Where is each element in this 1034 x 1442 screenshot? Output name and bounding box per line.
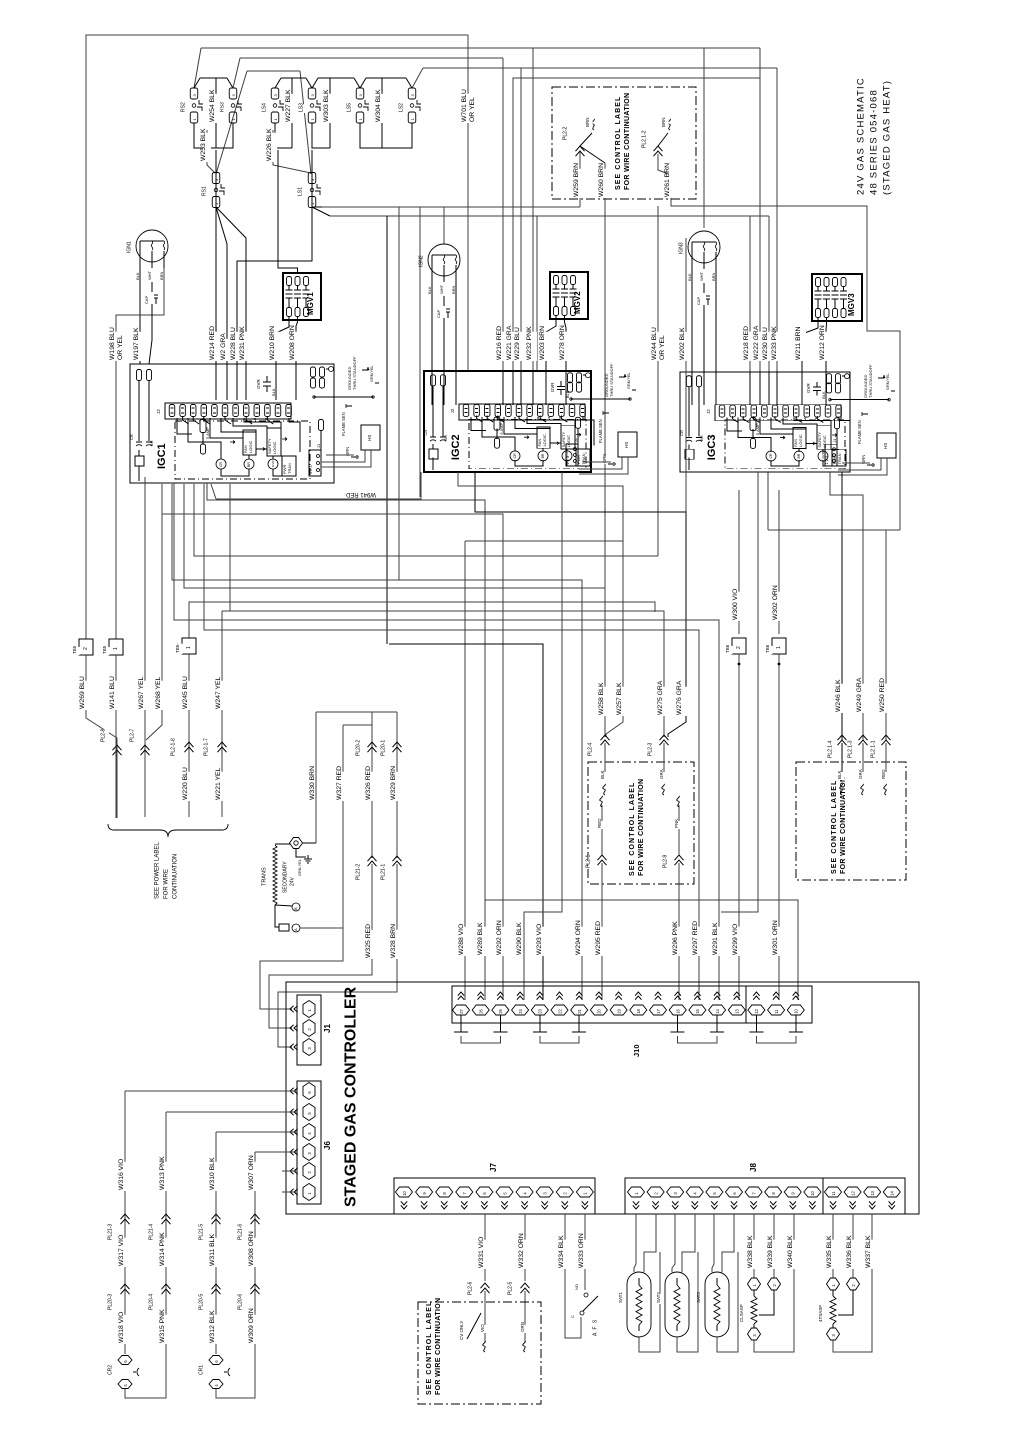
connector PL20-5	[201, 1294, 207, 1311]
connector PL2.1-2	[644, 130, 650, 149]
label W332 ORN	[521, 1240, 529, 1269]
svg-text:W292 ORN: W292 ORN	[496, 920, 503, 955]
connector PL2-1-7	[206, 738, 212, 757]
wire IGN2 feed	[443, 207, 445, 244]
svg-text:ORN: ORN	[520, 1322, 525, 1332]
wire into IGC3 J2	[691, 372, 693, 405]
svg-text:BLK: BLK	[837, 770, 842, 779]
connector PL2-8	[103, 729, 109, 743]
svg-text:GVR: GVR	[256, 378, 261, 389]
wire CR2 pin4 loop	[125, 1389, 166, 1398]
wire into IGC1 J2	[226, 364, 228, 400]
label W210 BRN	[272, 332, 280, 361]
svg-text:23: 23	[538, 1008, 543, 1013]
label W245 BLU	[185, 681, 193, 710]
wire bus to PL2-4 / W258 BLK	[184, 484, 605, 588]
svg-text:W197 BLK: W197 BLK	[133, 327, 140, 360]
terminal TB6 2	[732, 638, 746, 654]
svg-text:24V: 24V	[290, 876, 296, 886]
wire W216 RED feed (rail58 drop)	[502, 58, 504, 371]
connector PL21-4	[151, 1224, 157, 1241]
dashed box SEE CONTROL LABEL top-right	[552, 87, 696, 199]
switch RS3	[229, 88, 237, 99]
svg-text:CAP: CAP	[144, 295, 149, 304]
label W318 VIO	[121, 1315, 129, 1344]
svg-text:W290 BLK: W290 BLK	[516, 922, 523, 955]
svg-text:W258 BLK: W258 BLK	[598, 682, 605, 715]
wire J6 pin4 to W310 chain	[216, 1131, 297, 1133]
svg-text:J8: J8	[749, 1163, 758, 1172]
wire W330 BRN	[315, 712, 317, 838]
ignition control IGC2	[424, 371, 591, 472]
wire bus to W275 GRA	[229, 484, 231, 611]
svg-text:W335 BLK: W335 BLK	[826, 1235, 833, 1268]
svg-text:W232 PNK: W232 PNK	[526, 326, 533, 360]
svg-text:OR YEL: OR YEL	[659, 335, 666, 360]
wire into IGC3 J2	[801, 372, 803, 405]
wire W301 ORN	[778, 654, 780, 1000]
wire IGN1 BLK down (W197)	[139, 268, 141, 364]
svg-text:RED: RED	[881, 769, 886, 779]
svg-text:14: 14	[715, 1008, 720, 1013]
IGC2 grn/yel arrow	[619, 374, 625, 377]
label W333 ORN	[581, 1240, 589, 1269]
svg-text:15: 15	[695, 1008, 700, 1013]
svg-text:TRANS: TRANS	[262, 867, 268, 886]
label W227 BLK	[288, 94, 296, 123]
svg-text:W288 VIO: W288 VIO	[458, 924, 465, 955]
svg-text:W229 BLU: W229 BLU	[514, 327, 521, 360]
connector PL2-5	[510, 1282, 516, 1296]
svg-text:W308 ORN: W308 ORN	[248, 1231, 255, 1266]
wire into IGC1 J2	[275, 364, 277, 400]
svg-text:W2 GRA: W2 GRA	[220, 333, 227, 360]
svg-text:PL2-3: PL2-3	[648, 742, 654, 756]
svg-text:W276 GRA: W276 GRA	[676, 680, 683, 715]
svg-text:BLK: BLK	[427, 286, 432, 294]
wire W232 feed from rail48	[532, 48, 534, 371]
svg-text:(STAGED GAS HEAT): (STAGED GAS HEAT)	[881, 80, 892, 195]
svg-text:PL2.1-1: PL2.1-1	[871, 740, 877, 758]
svg-text:PL2-6: PL2-6	[468, 1281, 474, 1295]
wire IGC1 CR down	[138, 466, 140, 481]
label W337 BLK	[868, 1240, 876, 1269]
label W222 GRA	[756, 332, 764, 361]
svg-text:1 2 3: 1 2 3	[309, 466, 313, 474]
J10 termination bars	[460, 1015, 462, 1032]
label W233 PNK	[774, 332, 782, 361]
svg-text:MGV3: MGV3	[847, 293, 856, 316]
svg-text:CR1: CR1	[199, 1365, 205, 1375]
svg-text:W316 VIO: W316 VIO	[118, 1159, 125, 1190]
IGC1 connector J1	[309, 450, 321, 476]
svg-text:LOGIC: LOGIC	[798, 434, 803, 447]
wire J6 pin6 to W316 chain	[125, 1090, 297, 1092]
connector PL20-1	[383, 740, 389, 757]
svg-text:W218 RED: W218 RED	[743, 326, 750, 360]
wire W327 RED	[342, 725, 344, 928]
svg-text:16: 16	[676, 1008, 681, 1013]
IGC1 HS wires	[322, 450, 365, 462]
svg-text:W331 VIO: W331 VIO	[478, 1237, 485, 1268]
svg-text:W202 BLK: W202 BLK	[679, 327, 686, 360]
IGC1 grn/yel arrow	[362, 367, 368, 370]
svg-text:SEE CONTROL LABEL: SEE CONTROL LABEL	[831, 780, 838, 874]
IGC3 FAN LOGIC box	[793, 427, 806, 448]
svg-text:W294 ORN: W294 ORN	[575, 920, 582, 955]
svg-text:GRN-YEL: GRN-YEL	[298, 859, 302, 876]
wire PL2-2 diagonal to coil	[580, 133, 592, 146]
switch LS2	[408, 88, 416, 99]
wire W226 feed to LS1	[273, 130, 311, 173]
label W309 ORN	[251, 1315, 259, 1344]
svg-text:IGC1: IGC1	[156, 443, 168, 469]
terminal TB5 2	[79, 639, 93, 655]
svg-text:PL21-1: PL21-1	[381, 864, 387, 880]
svg-text:CONTINUATION: CONTINUATION	[172, 854, 178, 899]
wire bus to W249 GRA	[830, 472, 863, 740]
capacitor CAP of IGN2	[443, 296, 445, 306]
label W202 BLK	[682, 332, 690, 361]
svg-text:PL2-9: PL2-9	[663, 854, 669, 868]
label W268 YEL	[158, 681, 166, 710]
svg-text:2: 2	[83, 647, 89, 650]
svg-text:CAP: CAP	[436, 309, 441, 318]
svg-text:BRN: BRN	[661, 117, 666, 127]
svg-text:CR: CR	[129, 434, 134, 440]
wire U-loop LS4	[275, 123, 292, 148]
svg-text:FOR WIRE CONTINUATION: FOR WIRE CONTINUATION	[840, 777, 847, 874]
svg-text:PL20-6: PL20-6	[238, 1294, 244, 1310]
relay contact CR2	[110, 1367, 116, 1376]
wire GRA stub in right box	[862, 743, 864, 780]
svg-text:GRA: GRA	[858, 769, 863, 779]
svg-text:W245 BLU: W245 BLU	[182, 676, 189, 709]
svg-text:BLK: BLK	[600, 770, 605, 779]
switch AFS	[584, 1293, 588, 1297]
label W296 PNK	[675, 927, 683, 956]
svg-text:IGN2: IGN2	[419, 255, 425, 267]
wire J7 pin2 W334 BLK	[565, 1214, 581, 1338]
wire into IGC3 J2	[749, 372, 751, 405]
relay contact CR1	[201, 1367, 207, 1376]
IGC2 GRN wire stub	[605, 456, 610, 464]
wire SAT3 left lead	[712, 1214, 714, 1272]
svg-text:LS5: LS5	[347, 103, 353, 112]
IGC2 PWR TRAN box	[576, 449, 590, 466]
svg-text:TB5: TB5	[102, 645, 107, 654]
svg-text:THRU STANDOFF: THRU STANDOFF	[352, 356, 357, 390]
svg-text:BR: BR	[541, 453, 545, 458]
label W276 GRA	[679, 687, 687, 716]
svg-text:W313 PNK: W313 PNK	[159, 1156, 166, 1190]
label W211 BRN	[798, 332, 806, 361]
svg-text:SAT1: SAT1	[618, 1292, 623, 1303]
label J1	[327, 1025, 336, 1034]
svg-text:TRAN: TRAN	[581, 453, 586, 464]
wire J6 pin3 to W307 chain	[255, 1151, 297, 1153]
label W261 BRN	[667, 169, 675, 198]
CLSASP pin2 bend	[759, 1290, 774, 1315]
wire right side h530	[768, 529, 900, 531]
transformer secondary coil	[273, 845, 277, 905]
wire bus to W289 BLK	[207, 483, 485, 1000]
wire LS1 diagonal to h216	[312, 207, 330, 216]
label W325 RED	[368, 930, 376, 959]
wire drop 537	[536, 216, 538, 371]
temperature sensor SAT2	[665, 1272, 689, 1337]
svg-text:GVR: GVR	[806, 383, 811, 394]
label W289 BLK	[480, 927, 488, 956]
svg-text:RED: RED	[597, 818, 602, 828]
wire IGN1 BRN to W198	[116, 268, 164, 639]
wire into IGC2 J2	[502, 371, 504, 405]
label W212 ORN	[822, 332, 830, 361]
svg-text:PL20-2: PL20-2	[356, 740, 362, 756]
wire into IGC1 J2	[245, 364, 247, 400]
svg-text:PL2-1: PL2-1	[586, 854, 592, 868]
svg-text:W299 VIO: W299 VIO	[732, 924, 739, 955]
connector PL2-2	[565, 127, 571, 141]
svg-text:J7: J7	[489, 1163, 498, 1172]
rail y58	[240, 57, 503, 59]
label W329 BRN	[393, 772, 401, 801]
switch LS3	[308, 88, 316, 99]
svg-text:W244 BLU: W244 BLU	[651, 327, 658, 360]
svg-text:BLK: BLK	[135, 272, 140, 280]
wire W230 feed	[768, 216, 770, 372]
svg-text:RS2: RS2	[181, 102, 187, 112]
IGC2 BR contact	[446, 436, 451, 441]
svg-text:W310 BLK: W310 BLK	[209, 1157, 216, 1190]
label W307 ORN	[251, 1162, 259, 1191]
label W331 VIO	[481, 1240, 489, 1269]
IGC3 thermostat arrow	[862, 413, 868, 415]
wire W141 BLU below TB5-1	[115, 655, 117, 818]
coil BLK right	[840, 784, 843, 795]
connector PL2.1-4	[830, 740, 836, 759]
svg-text:IGN1: IGN1	[127, 241, 133, 253]
svg-text:10: 10	[810, 1190, 815, 1195]
switch RS2	[190, 88, 198, 99]
wire switch pair top link	[360, 78, 366, 88]
svg-text:W203 BRN: W203 BRN	[539, 326, 546, 360]
wire black bus to W293 VIO	[389, 644, 543, 1000]
svg-text:4TSASP: 4TSASP	[818, 1305, 823, 1322]
IGC3 standoff pins	[827, 374, 832, 384]
svg-text:W303 BLK: W303 BLK	[323, 89, 330, 122]
svg-text:LOGIC: LOGIC	[566, 435, 571, 448]
wire bus y602 to TB5-1	[189, 602, 655, 638]
svg-text:11: 11	[831, 1191, 836, 1196]
svg-text:PL21-5: PL21-5	[199, 1224, 205, 1240]
IGC1 internal dashed outline	[175, 421, 310, 479]
4TSASP pin2 bend	[838, 1290, 853, 1315]
svg-text:CV ONLY: CV ONLY	[459, 1321, 464, 1340]
temperature sensor SAT3	[705, 1272, 729, 1337]
wire into IGC2 J2	[443, 371, 445, 405]
dashed box SEE CONTROL LABEL mid	[588, 762, 694, 884]
svg-text:W141 BLU: W141 BLU	[109, 676, 116, 709]
wires below MGV3	[802, 318, 818, 372]
igniter IGN3	[688, 231, 720, 263]
svg-text:HS: HS	[883, 443, 888, 449]
IGC3 input pins	[687, 376, 692, 387]
svg-text:PL2-1-8: PL2-1-8	[171, 738, 177, 756]
terminal TB6 1	[772, 638, 786, 654]
svg-text:2: 2	[736, 646, 742, 649]
wire switch pair top link	[275, 78, 281, 88]
svg-text:W222 GRA: W222 GRA	[753, 325, 760, 360]
svg-text:B: B	[293, 907, 298, 910]
gas valve MGV1	[283, 273, 321, 320]
svg-text:J1: J1	[323, 1024, 332, 1033]
svg-text:W314 PNK: W314 PNK	[159, 1232, 166, 1266]
wire into IGC1 J2	[295, 364, 297, 400]
IGC2 relay GVR	[562, 451, 572, 461]
wire W325 RED	[269, 864, 372, 1020]
svg-text:BRN: BRN	[451, 285, 456, 294]
connector PL2.1-3	[850, 740, 856, 759]
svg-text:W325 RED: W325 RED	[365, 924, 372, 958]
coil GRA	[662, 784, 665, 795]
svg-text:12: 12	[754, 1008, 759, 1013]
svg-text:CR: CR	[679, 430, 684, 436]
svg-text:21: 21	[577, 1008, 582, 1013]
svg-text:W212 ORN: W212 ORN	[819, 325, 826, 360]
svg-text:W230 BLU: W230 BLU	[762, 327, 769, 360]
label W259 BRN	[576, 169, 584, 198]
wire black bus IGC2 to PL2-3 coil	[475, 472, 686, 737]
wire into IGC2 J2	[532, 371, 534, 405]
svg-text:1: 1	[776, 646, 782, 649]
svg-text:TB6: TB6	[725, 644, 730, 653]
svg-text:W221 GRA: W221 GRA	[506, 325, 513, 360]
IGC2 SAFETY LOGIC box	[561, 425, 575, 449]
IGC1 GVR capacitor	[258, 382, 263, 390]
label W198 BLU	[112, 332, 120, 361]
wire COM up to W330	[315, 712, 317, 843]
IGC3 fuse 5AMP	[750, 418, 756, 431]
IGC1 flame sense line	[314, 396, 373, 398]
dashed box SEE CONTROL LABEL right	[796, 762, 906, 880]
svg-text:GRA: GRA	[659, 769, 664, 779]
wire into IGC2 J2	[520, 371, 522, 405]
label W203 BRN	[542, 332, 550, 361]
svg-text:1: 1	[186, 646, 192, 649]
wire PNK W296 through box	[678, 863, 680, 1000]
wire RS2 top diagonal to rail48	[194, 48, 201, 88]
svg-text:10: 10	[402, 1190, 407, 1195]
label W334 BLK	[561, 1240, 569, 1269]
wire U-loop RS3	[216, 123, 233, 148]
label W317 VIO	[121, 1238, 129, 1267]
wire RS1 fan diagonal W231	[216, 207, 246, 371]
4TSASP pin3	[827, 1328, 840, 1340]
svg-text:W208 ORN: W208 ORN	[289, 325, 296, 360]
svg-text:13: 13	[735, 1008, 740, 1013]
wire IGN1 CAP out to IGC1	[149, 304, 152, 364]
connector PL2-7	[132, 729, 138, 743]
connector PL2.1-1	[873, 740, 879, 759]
connector PL2-9 inside box	[665, 855, 671, 869]
svg-text:22: 22	[557, 1008, 562, 1013]
svg-text:W300 VIO: W300 VIO	[732, 589, 739, 620]
connector PL21-6	[240, 1224, 246, 1241]
connector J10 strip	[452, 986, 812, 1023]
IGC1 standoff pins	[311, 367, 316, 377]
label W340 BLK	[790, 1240, 798, 1269]
svg-text:TRAN: TRAN	[287, 463, 292, 474]
ignition control IGC3	[680, 372, 850, 472]
svg-text:W307 ORN: W307 ORN	[248, 1155, 255, 1190]
svg-text:STAGED GAS CONTROLLER: STAGED GAS CONTROLLER	[343, 986, 360, 1207]
label W230 BLU	[765, 332, 773, 361]
transformer COM pin	[275, 843, 290, 845]
brace power label	[108, 824, 228, 837]
label W246 BLK	[838, 684, 846, 713]
label W221 GRA	[509, 332, 517, 361]
svg-text:W336 BLK: W336 BLK	[846, 1235, 853, 1268]
svg-text:W317 VIO: W317 VIO	[118, 1235, 125, 1266]
svg-text:W329 BRN: W329 BRN	[390, 766, 397, 800]
label W327 RED	[339, 772, 347, 801]
IGC3 GRN wire stub	[864, 457, 869, 465]
label W267 YEL	[141, 681, 149, 710]
controller box STAGED GAS CONTROLLER	[286, 982, 919, 1214]
connector J6 box	[297, 1081, 321, 1204]
svg-text:W267 YEL: W267 YEL	[138, 676, 145, 709]
wires below MGV1	[276, 317, 289, 364]
svg-text:W338 BLK: W338 BLK	[747, 1235, 754, 1268]
label W295 RED	[598, 927, 606, 956]
svg-text:W249 GRA: W249 GRA	[856, 677, 863, 712]
J8 chevrons	[633, 1205, 639, 1209]
svg-text:W339 BLK: W339 BLK	[767, 1235, 774, 1268]
svg-text:PL21-6: PL21-6	[238, 1224, 244, 1240]
svg-text:BRN: BRN	[585, 117, 590, 127]
svg-text:LS3: LS3	[299, 103, 305, 112]
switch LS4	[271, 88, 279, 99]
IGC1 thermostat arrow	[346, 405, 352, 407]
svg-text:W337 BLK: W337 BLK	[865, 1235, 872, 1268]
switch LS5	[356, 88, 364, 99]
svg-text:RS3: RS3	[220, 102, 226, 112]
label W216 RED	[499, 332, 507, 361]
wire into IGC2 J2	[565, 371, 567, 405]
transformer TRANS	[264, 872, 270, 887]
label W316 VIO	[121, 1162, 129, 1191]
wire W229 feed from rail68	[520, 68, 522, 371]
label J7	[493, 1164, 502, 1173]
svg-text:PL20-4: PL20-4	[149, 1294, 155, 1310]
IGC1 internal wiring	[177, 418, 192, 434]
svg-text:20: 20	[597, 1008, 602, 1013]
IGC2 connector J2	[459, 404, 585, 420]
wire into IGC1 J2	[215, 364, 217, 400]
svg-text:TB5-: TB5-	[175, 643, 180, 653]
svg-text:PL20-3: PL20-3	[108, 1294, 114, 1310]
label W314 PNK	[162, 1238, 170, 1267]
wire W244 BLU OR YEL	[657, 206, 659, 556]
wire SAT3 right lead	[722, 1214, 734, 1272]
connector PL2-4	[590, 743, 596, 757]
fuse at A	[279, 924, 289, 931]
4TSASP pin2	[852, 1214, 854, 1278]
svg-text:PNK: PNK	[674, 819, 679, 828]
wire SAT1 bottom lead	[639, 1252, 660, 1352]
wire RS1 fan diagonal W2	[216, 207, 227, 371]
